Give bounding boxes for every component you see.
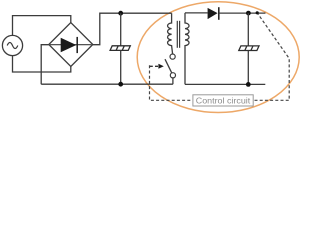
transformer T1 secondary winding [185, 13, 189, 85]
node: output cap bottom junction [246, 82, 251, 87]
capacitor C2 (hatched parallelogram) [239, 46, 259, 51]
bridge rectifier D1 (diamond) [49, 23, 93, 67]
node: feedback tap [256, 11, 259, 14]
wire: diode to output [219, 12, 266, 14]
transformer T1 primary winding [168, 13, 173, 54]
node: input cap bottom junction [118, 82, 123, 87]
transformer T1 core [177, 21, 179, 48]
wire: AC bottom to bridge [13, 56, 71, 72]
node: input cap top junction [118, 11, 123, 16]
svg-text:Control circuit: Control circuit [196, 97, 251, 106]
wire: AC top to bridge [13, 16, 71, 36]
wire: secondary bottom rail [185, 83, 265, 85]
wire: switch to bottom rail [172, 78, 174, 84]
control drive dashed arrow [150, 64, 164, 69]
wire: bridge negative to bottom rail [41, 45, 49, 84]
bridge inner diode [50, 37, 92, 53]
AC source V1 [2, 35, 22, 55]
control feedback dashed outline [150, 13, 290, 100]
wire: cap C2 bottom lead [247, 51, 249, 85]
wire: cap C1 top lead [120, 13, 122, 46]
node: output cap top junction [246, 11, 251, 16]
wire: cap C1 bottom lead [120, 50, 122, 84]
wire: cap C2 top lead [247, 13, 249, 46]
control circuit label box [193, 95, 253, 106]
highlight ellipse (orange) [137, 2, 299, 113]
wire: bridge positive up to top rail [93, 13, 172, 45]
diode D2 (output rectifier) [208, 7, 219, 20]
capacitor C1 (hatched parallelogram) [110, 46, 130, 51]
switch S1 (controlled) [165, 54, 175, 78]
wire: bottom rail (primary) [41, 83, 173, 85]
wire: secondary top rail [185, 12, 208, 14]
